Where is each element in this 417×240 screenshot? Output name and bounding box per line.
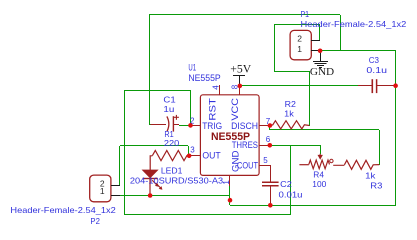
svg-text:NE555P: NE555P (211, 131, 250, 143)
svg-text:TRIG: TRIG (202, 121, 222, 131)
junction P1 pin1 GND node (318, 49, 323, 54)
svg-text:Header-Female-2.54_1x2: Header-Female-2.54_1x2 (10, 205, 116, 215)
svg-text:1: 1 (222, 180, 231, 185)
svg-text:0.01u: 0.01u (279, 190, 303, 200)
junction +5V VCC node (238, 84, 243, 89)
wire GND right vertical (395, 51, 397, 205)
wire TRIG-THRES right vertical (290, 145, 292, 215)
potentiometer R4 (299, 154, 344, 169)
wire TRIG-THRES top horizontal (125, 90, 190, 92)
connector P1 Header-Female body (290, 30, 311, 59)
wire GND top-right horizontal (320, 50, 396, 52)
junction C3 right node (393, 83, 398, 88)
wire DISCH horizontal to R3 (270, 129, 379, 131)
svg-text:P1: P1 (301, 9, 310, 19)
svg-text:C1: C1 (163, 94, 176, 104)
svg-text:NE555P: NE555P (188, 73, 220, 84)
svg-text:100: 100 (312, 179, 326, 189)
capacitor C1 polarized (151, 115, 180, 132)
capacitor C3 (358, 79, 396, 93)
supply +5V symbol (230, 61, 251, 85)
U1 pin 7 DISCH lead (259, 125, 270, 127)
wire P1 pin2 jog horizontal (274, 71, 309, 73)
P1 pin 2 lead (311, 40, 320, 42)
junction C2 bottom node (268, 203, 273, 208)
svg-text:+5V: +5V (230, 61, 251, 75)
capacitor C2 (262, 182, 279, 205)
U1 pin 3 OUT lead (189, 155, 201, 157)
wire R3 right vertical (379, 130, 381, 165)
U1 pin 4 RST lead (219, 85, 221, 95)
ground symbol GND (310, 51, 335, 78)
svg-text:P2: P2 (90, 216, 100, 226)
wire OUT drop to pin 3 (188, 146, 190, 156)
svg-text:C2: C2 (280, 179, 292, 189)
svg-text:R3: R3 (370, 180, 382, 190)
wire R2 right vertical (309, 71, 311, 126)
svg-text:Header-Female-2.54_1x2: Header-Female-2.54_1x2 (301, 19, 407, 29)
svg-text:220: 220 (164, 138, 180, 148)
svg-text:RST: RST (207, 98, 217, 121)
svg-text:1: 1 (100, 186, 105, 196)
junction OUT node (187, 154, 192, 159)
U1 pin 5 COUT lead (259, 165, 271, 182)
svg-text:LED1: LED1 (161, 165, 183, 175)
LED LED1 (143, 170, 163, 196)
U1 pin 8 VCC lead (239, 86, 241, 95)
wire P2 pin2 vertical (119, 146, 121, 185)
wire TRIG drop to pin 2 (190, 90, 192, 125)
resistor R1 (150, 156, 152, 170)
connector P2 Header-Female body (90, 175, 111, 202)
resistor R2 (270, 121, 310, 129)
svg-text:C3: C3 (369, 55, 380, 65)
svg-text:VCC: VCC (230, 98, 240, 121)
svg-text:0.1u: 0.1u (366, 65, 387, 75)
junction THRES node (268, 143, 273, 148)
svg-text:DISCH: DISCH (231, 121, 258, 131)
U1 pin 2 TRIG lead (190, 125, 201, 127)
svg-text:1k: 1k (284, 108, 295, 118)
P2 pin 2 lead (111, 185, 120, 187)
junction TRIG node (188, 123, 193, 128)
junction IC GND node (228, 198, 233, 203)
wire GND bottom rail (230, 205, 396, 207)
svg-text:OUT: OUT (202, 150, 221, 160)
svg-text:3: 3 (190, 145, 195, 154)
wire C1 right to TRIG node (179, 125, 190, 127)
svg-text:204-10SURD/S530-A3: 204-10SURD/S530-A3 (130, 176, 223, 186)
svg-text:2: 2 (297, 34, 302, 44)
wire IC GND pin vertical (229, 186, 231, 205)
wire GND top rail (149, 14, 340, 16)
wire +5V rail to C3 (240, 85, 358, 87)
wire TRIG-THRES bottom horizontal (125, 214, 290, 216)
resistor R3 (344, 160, 379, 169)
P2 pin 1 lead (111, 195, 120, 197)
svg-text:GND: GND (310, 67, 335, 78)
wire C1 left stub (149, 124, 151, 126)
wire DISCH jog down (269, 126, 271, 130)
U1 pin 6 THRES lead (259, 145, 270, 147)
wire GND left vertical to C1 (149, 15, 151, 125)
P1 pin 1 lead (311, 50, 320, 52)
svg-text:1k: 1k (365, 171, 376, 181)
wire GND LED cathode horizontal (120, 195, 230, 197)
wire P1 pin2 horizontal (274, 24, 320, 26)
svg-text:6: 6 (266, 135, 271, 144)
wire P1 pin2 riser (319, 25, 321, 40)
junction DISCH node (268, 123, 273, 128)
svg-text:4: 4 (211, 85, 220, 90)
junction LED cathode node (148, 193, 153, 198)
wire P2 pin2 horizontal to OUT (120, 145, 188, 147)
wire TRIG-THRES left vertical (124, 90, 126, 215)
op-amp/timer U1 NE555P body (200, 95, 259, 176)
wire THRES drop to R4 wiper (320, 145, 322, 154)
wire THRES horizontal (270, 145, 320, 147)
svg-text:5: 5 (263, 156, 268, 165)
svg-text:GND: GND (231, 150, 241, 172)
svg-text:1u: 1u (163, 104, 174, 114)
wire P1 pin2 left vertical (274, 25, 276, 71)
U1 pin 1 GND lead (229, 175, 231, 186)
wire GND drop from top rail (340, 15, 342, 51)
svg-text:1: 1 (297, 44, 302, 54)
